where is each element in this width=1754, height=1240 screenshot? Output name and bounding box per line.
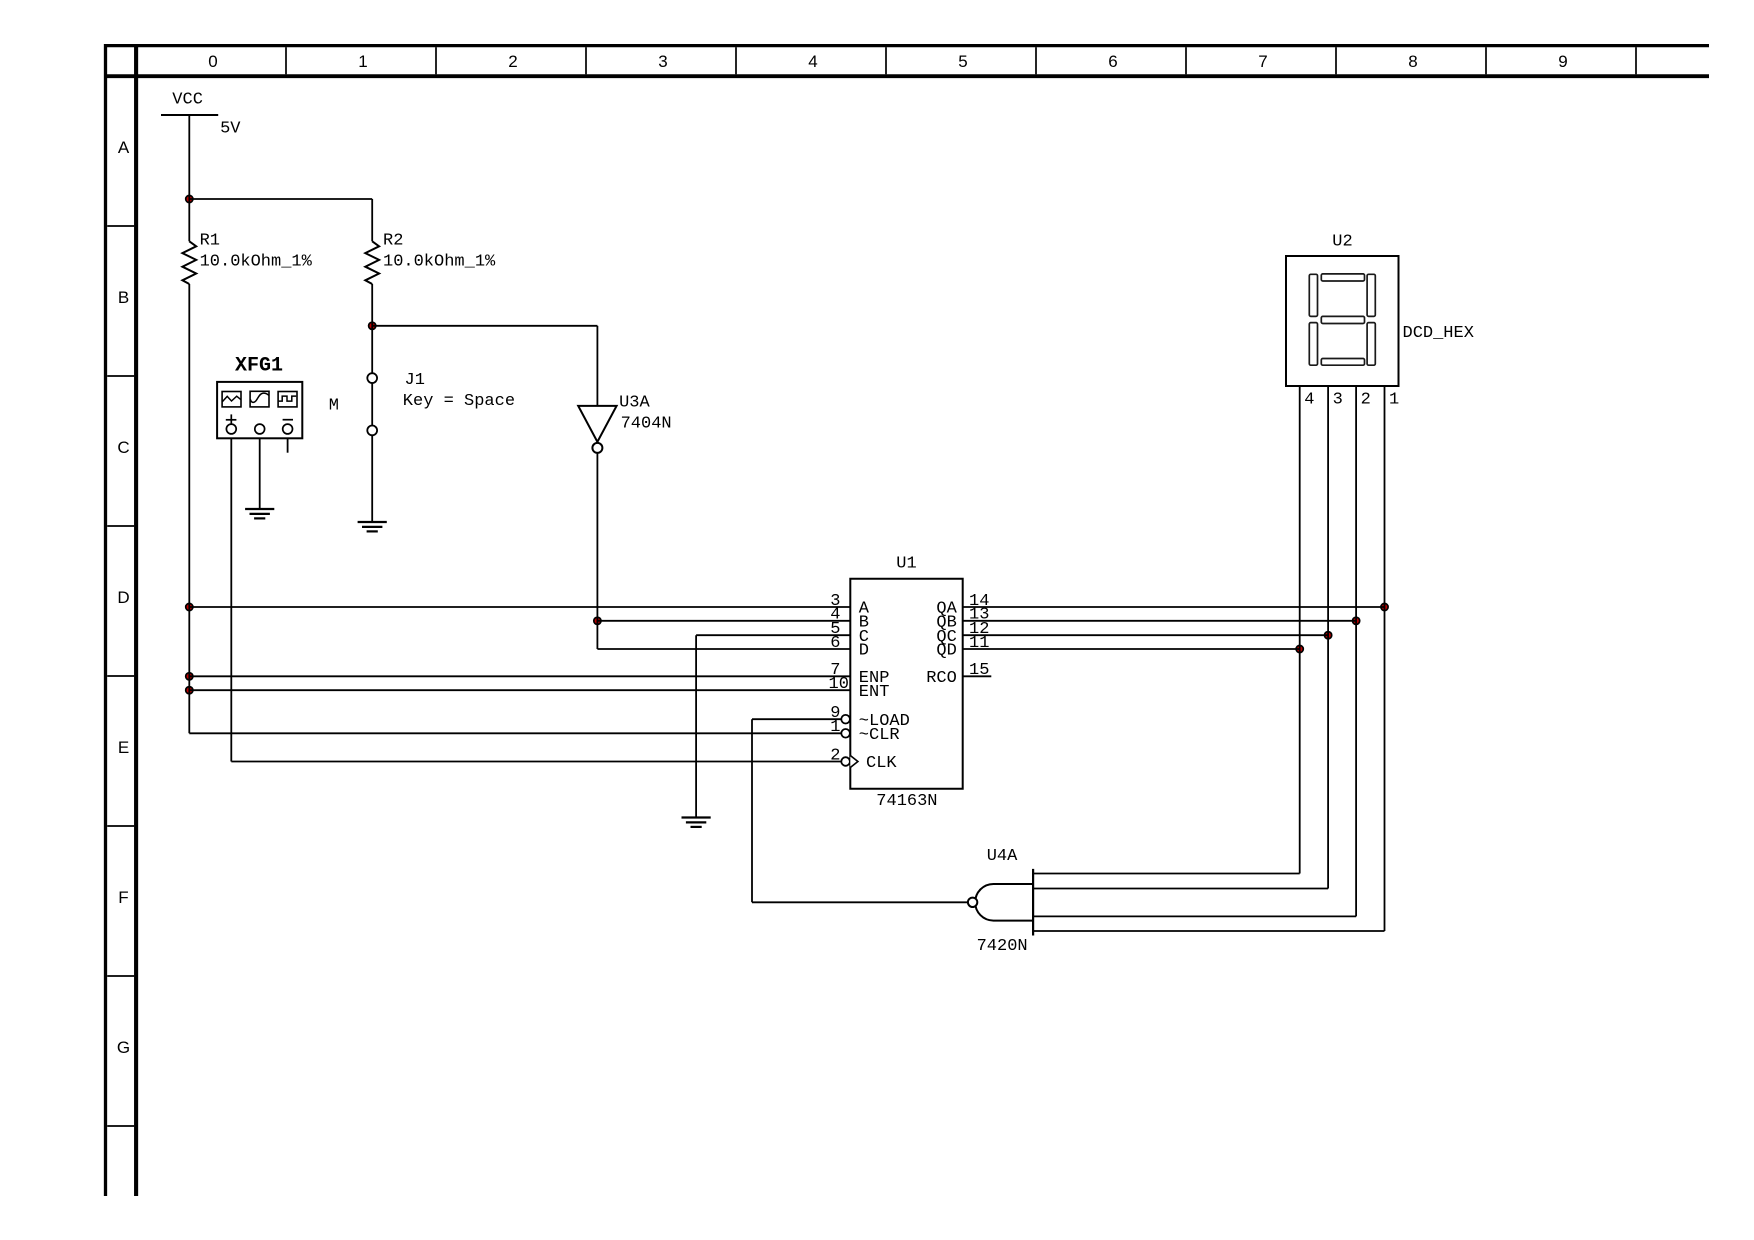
svg-text:7404N: 7404N (621, 414, 672, 433)
svg-text:~CLR: ~CLR (859, 726, 900, 745)
svg-text:2: 2 (1361, 390, 1371, 409)
svg-text:11: 11 (969, 634, 989, 653)
svg-text:A: A (118, 138, 130, 157)
svg-text:0: 0 (208, 52, 217, 71)
svg-text:9: 9 (1558, 52, 1567, 71)
svg-text:4: 4 (1304, 390, 1314, 409)
svg-text:10.0kOhm_1%: 10.0kOhm_1% (200, 253, 313, 272)
svg-text:15: 15 (969, 661, 989, 680)
svg-text:3: 3 (658, 52, 667, 71)
svg-text:R1: R1 (200, 232, 220, 251)
svg-text:U2: U2 (1332, 233, 1352, 252)
svg-text:M: M (329, 397, 339, 416)
svg-text:U3A: U3A (619, 394, 650, 413)
svg-text:F: F (118, 888, 128, 907)
svg-text:J1: J1 (405, 371, 425, 390)
svg-text:8: 8 (1408, 52, 1417, 71)
svg-text:2: 2 (830, 746, 840, 765)
svg-text:4: 4 (808, 52, 817, 71)
svg-text:74163N: 74163N (876, 792, 937, 811)
svg-text:XFG1: XFG1 (235, 354, 283, 377)
svg-text:1: 1 (830, 718, 840, 737)
svg-text:U4A: U4A (987, 847, 1018, 866)
svg-text:1: 1 (1389, 390, 1399, 409)
svg-text:R2: R2 (383, 232, 403, 251)
svg-text:7420N: 7420N (977, 937, 1028, 956)
svg-text:B: B (118, 288, 129, 307)
svg-text:Key = Space: Key = Space (403, 392, 515, 411)
svg-text:RCO: RCO (926, 669, 957, 688)
svg-text:5: 5 (958, 52, 967, 71)
svg-text:G: G (117, 1038, 130, 1057)
svg-text:DCD_HEX: DCD_HEX (1403, 324, 1474, 343)
svg-text:7: 7 (1258, 52, 1267, 71)
svg-text:CLK: CLK (866, 754, 897, 773)
svg-text:C: C (117, 438, 129, 457)
svg-text:6: 6 (1108, 52, 1117, 71)
svg-text:QD: QD (936, 642, 956, 661)
svg-text:ENT: ENT (859, 683, 890, 702)
svg-text:5V: 5V (220, 119, 241, 138)
svg-text:10: 10 (829, 675, 849, 694)
svg-text:6: 6 (830, 634, 840, 653)
svg-text:U1: U1 (896, 555, 916, 574)
svg-text:D: D (117, 588, 129, 607)
svg-text:1: 1 (358, 52, 367, 71)
svg-text:2: 2 (508, 52, 517, 71)
svg-text:VCC: VCC (172, 90, 203, 109)
svg-text:3: 3 (1333, 390, 1343, 409)
svg-text:10.0kOhm_1%: 10.0kOhm_1% (383, 253, 496, 272)
svg-text:E: E (118, 738, 129, 757)
svg-text:D: D (859, 642, 869, 661)
